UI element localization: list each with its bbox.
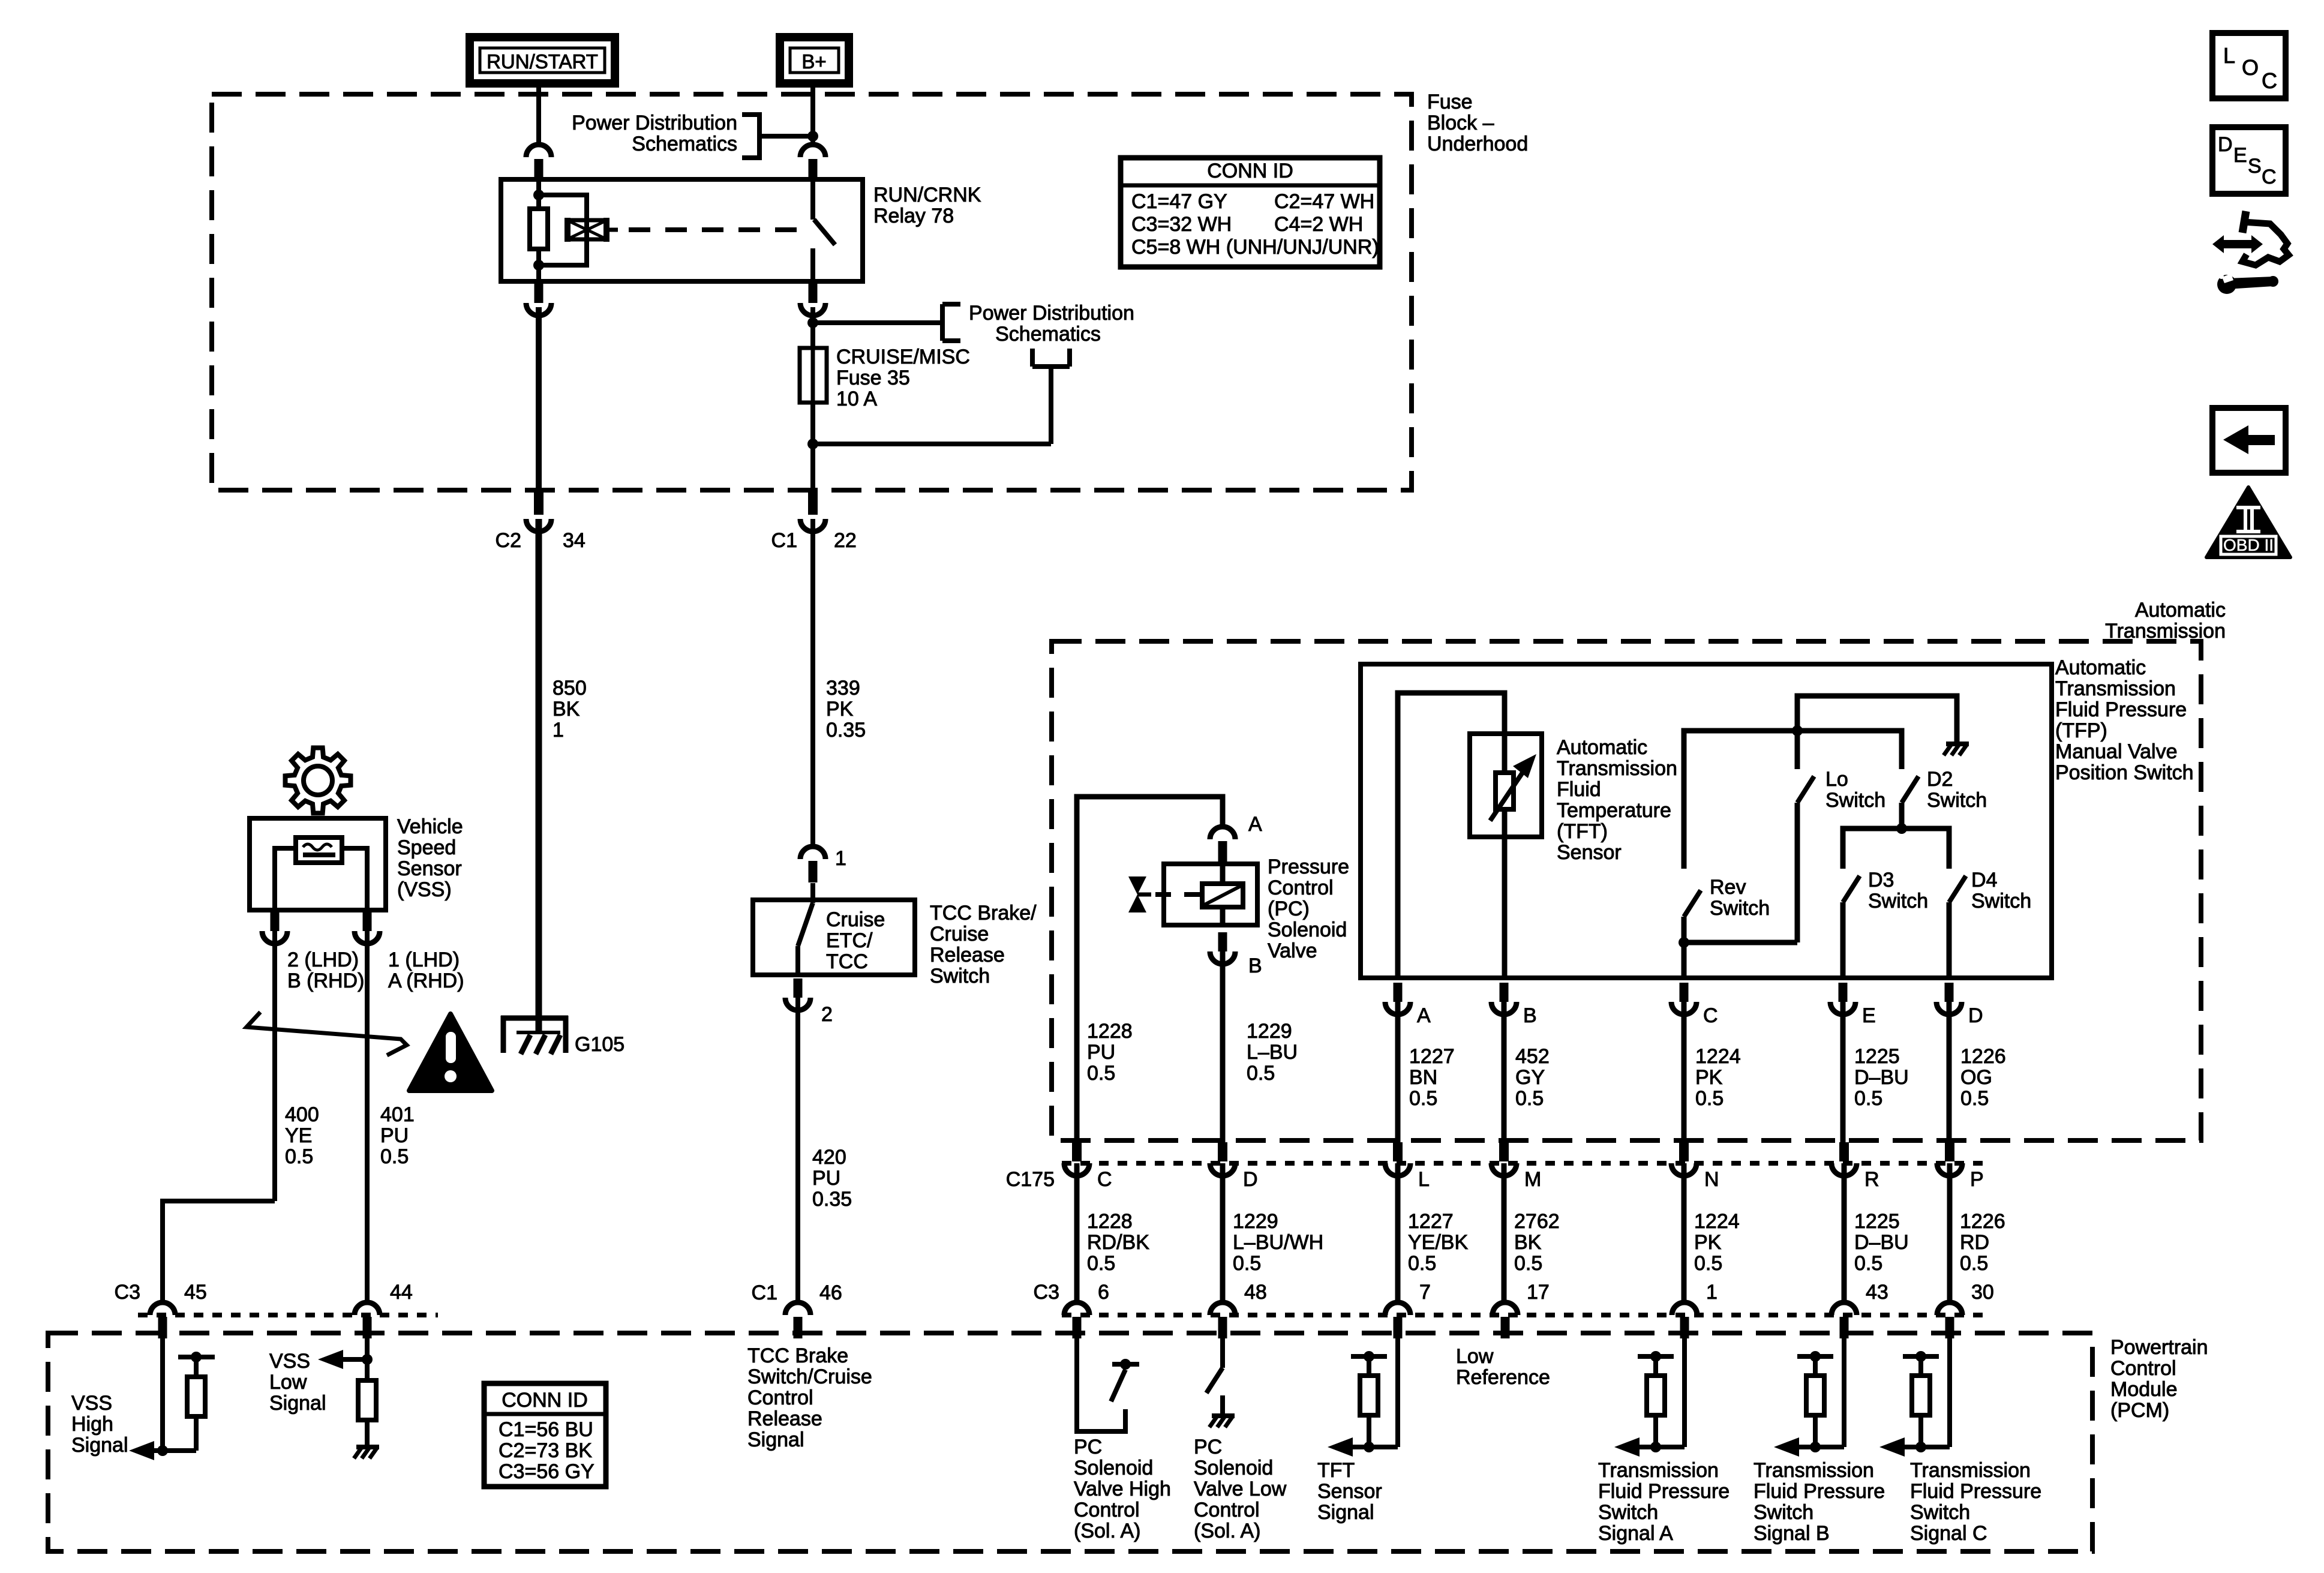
svg-text:1228: 1228 [1087,1020,1133,1043]
connector C175 N [1671,1142,1697,1176]
label wire 1226 RD [1960,1210,2005,1275]
svg-text:Solenoid: Solenoid [1074,1457,1153,1479]
PC high control wire [1077,1334,1125,1431]
CRUISE/MISC fuse label [836,346,970,410]
wire TFP pin C [1682,942,1687,978]
connector C175 D [1210,1142,1235,1176]
svg-text:Speed: Speed [397,836,456,859]
PC solenoid core [1202,884,1243,907]
label 1229 L-BU 0.5 [1247,1020,1298,1085]
connector PC pin B [1210,932,1235,964]
svg-text:1229: 1229 [1247,1020,1292,1043]
svg-text:YE: YE [285,1124,312,1147]
svg-text:Signal C: Signal C [1910,1522,1987,1545]
label 400 YE 0.5 [285,1103,319,1168]
wire fuse to C1 [810,403,815,492]
label TFP signal C [1910,1459,2041,1545]
label VSS Low Signal [269,1350,326,1415]
label PC solenoid low [1194,1436,1287,1542]
PC valve bowtie [1128,876,1151,912]
TFP lower bus [1843,828,1949,869]
connector C175 R [1831,1142,1857,1176]
svg-text:Reference: Reference [1456,1366,1550,1389]
VSS high resistor branch [129,1352,215,1460]
svg-text:452: 452 [1515,1045,1550,1068]
label C175 R [1864,1168,1879,1191]
wire R to PCM [1842,1163,1847,1303]
svg-text:C1: C1 [771,529,797,552]
svg-text:Signal: Signal [71,1434,128,1457]
svg-text:Transmission: Transmission [1557,757,1677,780]
svg-text:D2: D2 [1927,768,1953,791]
RUN/START terminal box [470,37,615,83]
svg-text:Automatic: Automatic [1557,736,1647,759]
svg-text:A (RHD): A (RHD) [388,969,464,992]
automatic transmission label [2105,599,2226,643]
connector C1 pin 46 [785,1302,810,1338]
svg-text:Valve High: Valve High [1074,1478,1171,1500]
relay coil wire top [533,176,544,209]
svg-text:Fluid Pressure: Fluid Pressure [1910,1480,2041,1503]
svg-text:Control: Control [1268,876,1334,899]
TFP signal C branch [1879,1351,1950,1457]
D2 switch [1896,776,1918,834]
svg-text:Transmission: Transmission [1910,1459,2031,1482]
label pin 43 [1866,1281,1888,1304]
label PC pin A [1248,813,1262,836]
svg-text:CONN ID: CONN ID [502,1389,588,1412]
label TFP pin A [1417,1004,1431,1027]
svg-text:Sensor: Sensor [397,857,462,880]
svg-text:B+: B+ [801,50,826,73]
svg-text:45: 45 [184,1281,207,1304]
label C2 34 [496,529,585,552]
svg-text:0.5: 0.5 [1087,1252,1115,1275]
label D2 switch [1927,768,1987,812]
svg-text:Valve: Valve [1268,939,1317,962]
label 420 PU 0.35 [812,1146,852,1211]
OBD II icon [2206,487,2290,557]
automatic transmission dashed border [1052,641,2201,1140]
D4 switch [1949,876,1966,978]
label wire 452 [1515,1045,1550,1110]
label 1228 PU 0.5 [1087,1020,1133,1085]
svg-text:Power Distribution: Power Distribution [969,302,1134,325]
label pin 1 [1706,1281,1718,1304]
PC actuation dashes [1155,892,1202,897]
svg-text:OG: OG [1960,1066,1992,1089]
svg-text:0.5: 0.5 [1515,1087,1544,1110]
PC low control switch [1206,1368,1223,1415]
svg-text:Rev: Rev [1710,876,1746,899]
label D4 switch [1971,869,2031,912]
wire VSS low inside [362,1334,373,1380]
wire N to PCM [1682,1163,1687,1303]
svg-text:Switch/Cruise: Switch/Cruise [747,1365,872,1388]
svg-text:B: B [1248,954,1262,977]
connector TCC pin 1 [800,846,825,882]
label PC pin B [1248,954,1262,977]
svg-text:0.5: 0.5 [285,1145,313,1168]
svg-text:C: C [2262,166,2277,188]
svg-text:Valve Low: Valve Low [1194,1478,1287,1500]
fuse block label [1427,91,1528,155]
svg-text:0.5: 0.5 [1233,1252,1261,1275]
B+ terminal box [780,37,849,83]
PC low control wire [1220,1334,1225,1368]
svg-text:Relay 78: Relay 78 [873,205,954,227]
TFP label [2055,656,2194,784]
LOC icon [2212,33,2286,98]
svg-text:1: 1 [1706,1281,1718,1304]
label 850 BK 1 [553,677,587,742]
wire VSS high inside [157,1334,168,1456]
svg-text:RD/BK: RD/BK [1087,1231,1149,1254]
connector C1 pin 22 [800,491,825,532]
label pin 30 [1971,1281,1994,1304]
node fuse top junction [807,317,818,328]
svg-text:A: A [1248,813,1262,836]
svg-text:B (RHD): B (RHD) [287,969,364,992]
PCM label [2110,1336,2208,1422]
VSS inner sensor symbol [296,837,342,863]
connector PC pin A [1210,827,1235,863]
label Lo switch [1825,768,1885,812]
TFP manual valve position switch box [1361,664,2052,978]
CONN ID table bottom [484,1383,606,1487]
svg-text:0.5: 0.5 [1409,1087,1437,1110]
Rev switch [1679,890,1701,948]
label wire 1229 L–BU/WH [1233,1210,1323,1275]
VSS low arrow [318,1350,367,1369]
wire 850 BK [536,519,542,1032]
svg-text:YE/BK: YE/BK [1408,1231,1468,1254]
svg-text:RD: RD [1960,1231,1989,1254]
svg-text:L–BU: L–BU [1247,1041,1298,1064]
svg-text:34: 34 [563,529,585,552]
TFP mid bus [1684,725,1902,869]
wire B+ down [810,83,815,146]
svg-text:1224: 1224 [1695,1045,1741,1068]
svg-text:Fluid Pressure: Fluid Pressure [1598,1480,1730,1503]
svg-text:C2: C2 [496,529,521,552]
wire 1229 L-BU [1220,951,1226,1160]
svg-text:0.5: 0.5 [1960,1087,1989,1110]
node fuse bottom junction [807,439,818,449]
svg-text:D–BU: D–BU [1854,1231,1909,1254]
PC high control switch [1111,1359,1139,1401]
svg-text:Switch: Switch [1927,789,1987,812]
svg-text:BK: BK [553,698,580,721]
wire VSS low to ground [365,1420,370,1446]
svg-text:Transmission: Transmission [2055,677,2176,700]
svg-text:PU: PU [380,1124,409,1147]
wire RUN/START to relay [536,83,541,146]
svg-text:0.5: 0.5 [1854,1252,1882,1275]
svg-text:TCC Brake: TCC Brake [747,1344,848,1367]
svg-text:1227: 1227 [1408,1210,1454,1233]
PC solenoid box [1164,864,1257,925]
label TFP pin B [1523,1004,1537,1027]
svg-text:Powertrain: Powertrain [2110,1336,2208,1359]
label TFP pin C [1703,1004,1718,1027]
service icon [2212,211,2289,294]
label 339 PK 0.35 [826,677,866,742]
svg-text:D: D [1243,1168,1258,1191]
svg-text:E: E [1862,1004,1876,1027]
svg-text:Manual Valve: Manual Valve [2055,740,2178,763]
svg-text:Switch: Switch [1868,890,1928,912]
svg-text:E: E [2233,144,2247,167]
svg-text:Solenoid: Solenoid [1268,918,1347,941]
svg-text:L: L [2223,43,2235,68]
svg-text:(TFT): (TFT) [1557,820,1608,843]
svg-text:Low: Low [269,1371,307,1394]
svg-text:D–BU: D–BU [1854,1066,1909,1089]
label C175 P [1970,1168,1984,1191]
TFP top bus [1797,696,1957,743]
svg-text:Signal: Signal [1317,1501,1374,1524]
svg-text:Control: Control [2110,1357,2176,1380]
svg-text:Vehicle: Vehicle [397,815,463,838]
label 401 PU 0.5 [380,1103,415,1168]
label C175 M [1524,1168,1541,1191]
svg-text:0.5: 0.5 [380,1145,409,1168]
PC solenoid label [1268,855,1349,962]
svg-text:Fuse 35: Fuse 35 [836,367,910,389]
svg-text:17: 17 [1527,1281,1550,1304]
relay coil wire bottom [536,249,541,281]
svg-text:Signal B: Signal B [1753,1522,1830,1545]
svg-text:Fluid Pressure: Fluid Pressure [2055,698,2187,721]
label wire 1225 [1854,1045,1909,1110]
label C175 L [1418,1168,1430,1191]
label C1 46 [752,1281,842,1304]
wire 401 PU [365,931,370,1302]
wire D to PCM [1220,1163,1226,1303]
wire C to PCM [1074,1163,1080,1303]
svg-text:Fluid Pressure: Fluid Pressure [1753,1480,1885,1503]
wire 400 YE upper [272,931,277,1201]
svg-text:CRUISE/MISC: CRUISE/MISC [836,346,970,368]
svg-text:C175: C175 [1006,1168,1055,1191]
svg-text:44: 44 [390,1281,413,1304]
svg-text:D: D [1968,1004,1983,1027]
svg-text:Switch: Switch [1971,890,2031,912]
svg-text:Control: Control [1074,1499,1140,1521]
Lo return wire [1684,940,1797,945]
svg-text:Underhood: Underhood [1427,133,1528,155]
PC low chassis ground [1209,1416,1235,1427]
ground G105 [501,1016,568,1054]
relay coil loop [533,195,587,271]
label C175 D [1243,1168,1258,1191]
connector PCM at 3250 [1937,1302,1962,1338]
svg-text:Automatic: Automatic [2055,656,2146,679]
svg-text:High: High [71,1413,113,1436]
wire 420 PU [795,998,800,1303]
connector TFP pin D [1936,983,1962,1014]
svg-text:(PC): (PC) [1268,897,1310,920]
twisted pair slash [247,1012,407,1055]
label wire 2762 BK [1514,1210,1560,1275]
node B+ junction [807,131,818,142]
svg-text:22: 22 [834,529,857,552]
svg-text:PU: PU [812,1167,840,1190]
wire 400 YE jog [163,1201,275,1302]
svg-text:0.5: 0.5 [1087,1062,1115,1085]
label wire 1226 [1960,1045,2006,1110]
svg-text:Switch: Switch [1710,897,1770,920]
svg-text:Fuse: Fuse [1427,91,1473,113]
relay switch [813,179,835,281]
TFP signal C wire [1947,1334,1952,1447]
label TFP pin E [1862,1004,1876,1027]
relay solenoid X-box [565,218,618,242]
label pin 17 [1527,1281,1550,1304]
relay 78 box [501,179,863,281]
svg-text:C4=2 WH: C4=2 WH [1274,213,1363,236]
label TFT sensor signal [1317,1459,1382,1524]
label C3 pin 6 [1034,1281,1109,1304]
svg-text:0.5: 0.5 [1695,1087,1724,1110]
connector TFP pin B [1491,983,1517,1014]
svg-text:C3: C3 [115,1281,140,1304]
connector TFP pin E [1830,983,1855,1014]
svg-text:O: O [2242,55,2259,80]
wire relay coil to C2 [536,307,542,492]
label wire 1227 [1409,1045,1455,1110]
D3 switch [1843,876,1860,978]
connector TFP pin A [1385,983,1410,1014]
svg-text:(VSS): (VSS) [397,878,452,901]
TFT resistor branch [1328,1351,1398,1457]
svg-text:VSS: VSS [269,1350,310,1373]
svg-text:0.5: 0.5 [1247,1062,1275,1085]
label C1 22 [771,529,857,552]
connector C175 P [1937,1142,1962,1176]
svg-text:2: 2 [821,1003,833,1026]
svg-text:GY: GY [1515,1066,1545,1089]
svg-text:Transmission: Transmission [2105,620,2226,643]
svg-text:339: 339 [826,677,860,700]
TFP signal A branch [1614,1351,1685,1457]
svg-text:PU: PU [1087,1041,1115,1064]
svg-text:L: L [1418,1168,1430,1191]
svg-text:46: 46 [819,1281,842,1304]
svg-text:PK: PK [1694,1231,1722,1254]
label Rev switch [1710,876,1770,920]
svg-text:C: C [1703,1004,1718,1027]
VSS box [250,818,386,910]
svg-text:Transmission: Transmission [1598,1459,1719,1482]
label 44 [390,1281,413,1304]
svg-text:1227: 1227 [1409,1045,1455,1068]
svg-text:Signal: Signal [747,1428,804,1451]
svg-text:Schematics: Schematics [632,133,737,155]
svg-text:C2=73 BK: C2=73 BK [499,1439,592,1462]
PCM dotted line right [1062,1313,1986,1317]
svg-text:0.5: 0.5 [1960,1252,1988,1275]
svg-text:1226: 1226 [1960,1045,2006,1068]
svg-text:N: N [1704,1168,1719,1191]
svg-text:C: C [1097,1168,1112,1191]
svg-text:1229: 1229 [1233,1210,1278,1233]
svg-text:0.35: 0.35 [812,1188,852,1211]
svg-text:2762: 2762 [1514,1210,1560,1233]
CONN ID table top [1121,158,1380,267]
svg-text:Signal A: Signal A [1598,1522,1673,1545]
svg-text:VSS: VSS [71,1392,112,1415]
svg-text:Cruise: Cruise [826,908,885,931]
svg-text:0.5: 0.5 [1694,1252,1722,1275]
TFP signal B wire [1842,1334,1846,1447]
svg-text:Position Switch: Position Switch [2055,761,2194,784]
connector C175 L [1385,1142,1410,1176]
label VSS pin1 [388,948,464,992]
wire M to PCM [1502,1163,1507,1303]
svg-text:C5=8 WH (UNH/UNJ/UNR): C5=8 WH (UNH/UNJ/UNR) [1131,236,1379,259]
svg-text:Solenoid: Solenoid [1194,1457,1273,1479]
svg-text:1225: 1225 [1854,1210,1900,1233]
svg-text:(Sol. A): (Sol. A) [1194,1520,1260,1542]
svg-text:Control: Control [1194,1499,1260,1521]
svg-text:BN: BN [1409,1066,1437,1089]
label wire 1227 YE/BK [1408,1210,1468,1275]
svg-text:1 (LHD): 1 (LHD) [388,948,460,971]
svg-text:1228: 1228 [1087,1210,1133,1233]
svg-text:C1=56 BU: C1=56 BU [499,1418,593,1441]
svg-text:Control: Control [747,1386,813,1409]
TFT sensor resistor [1496,734,1514,837]
TCC brake cruise box [753,900,915,975]
dotted connector line left [138,1313,438,1317]
connector PCM at 2808 [1672,1302,1697,1338]
warning triangle [409,1014,492,1091]
svg-text:43: 43 [1866,1281,1888,1304]
svg-text:Release: Release [747,1407,822,1430]
DESC icon [2212,127,2286,194]
svg-text:Block –: Block – [1427,112,1494,134]
CRUISE/MISC Fuse 35 symbol [800,348,827,403]
connector PCM at 3074 [1831,1302,1857,1338]
VSS label [397,815,463,901]
TFT sensor label [1557,736,1677,864]
connector C3 pin 45 [150,1302,175,1338]
label wire 1225 D–BU [1854,1210,1909,1275]
svg-text:1: 1 [553,719,564,742]
label wire 1224 PK [1694,1210,1740,1275]
svg-text:PC: PC [1194,1436,1222,1458]
power distribution schematics callout 1 [572,112,810,160]
svg-text:7: 7 [1419,1281,1431,1304]
VSS inner wires [275,848,367,908]
label wire 1228 RD/BK [1087,1210,1149,1275]
wire TFP C down [1682,1002,1687,1142]
svg-text:1225: 1225 [1854,1045,1900,1068]
TCC brake signal label [747,1344,872,1451]
wire 339 PK [810,519,815,846]
svg-text:1: 1 [835,847,846,870]
svg-text:RUN/CRNK: RUN/CRNK [873,184,981,206]
C175 dotted line [1062,1161,1986,1166]
TFT signal wire [1395,1334,1400,1447]
connector PCM at 1795 [1064,1302,1089,1338]
RUN/CRNK Relay 78 label [873,184,981,227]
svg-text:(PCM): (PCM) [2110,1399,2169,1422]
svg-text:C2=47 WH: C2=47 WH [1274,190,1374,213]
label VSS pin2 [287,948,364,992]
